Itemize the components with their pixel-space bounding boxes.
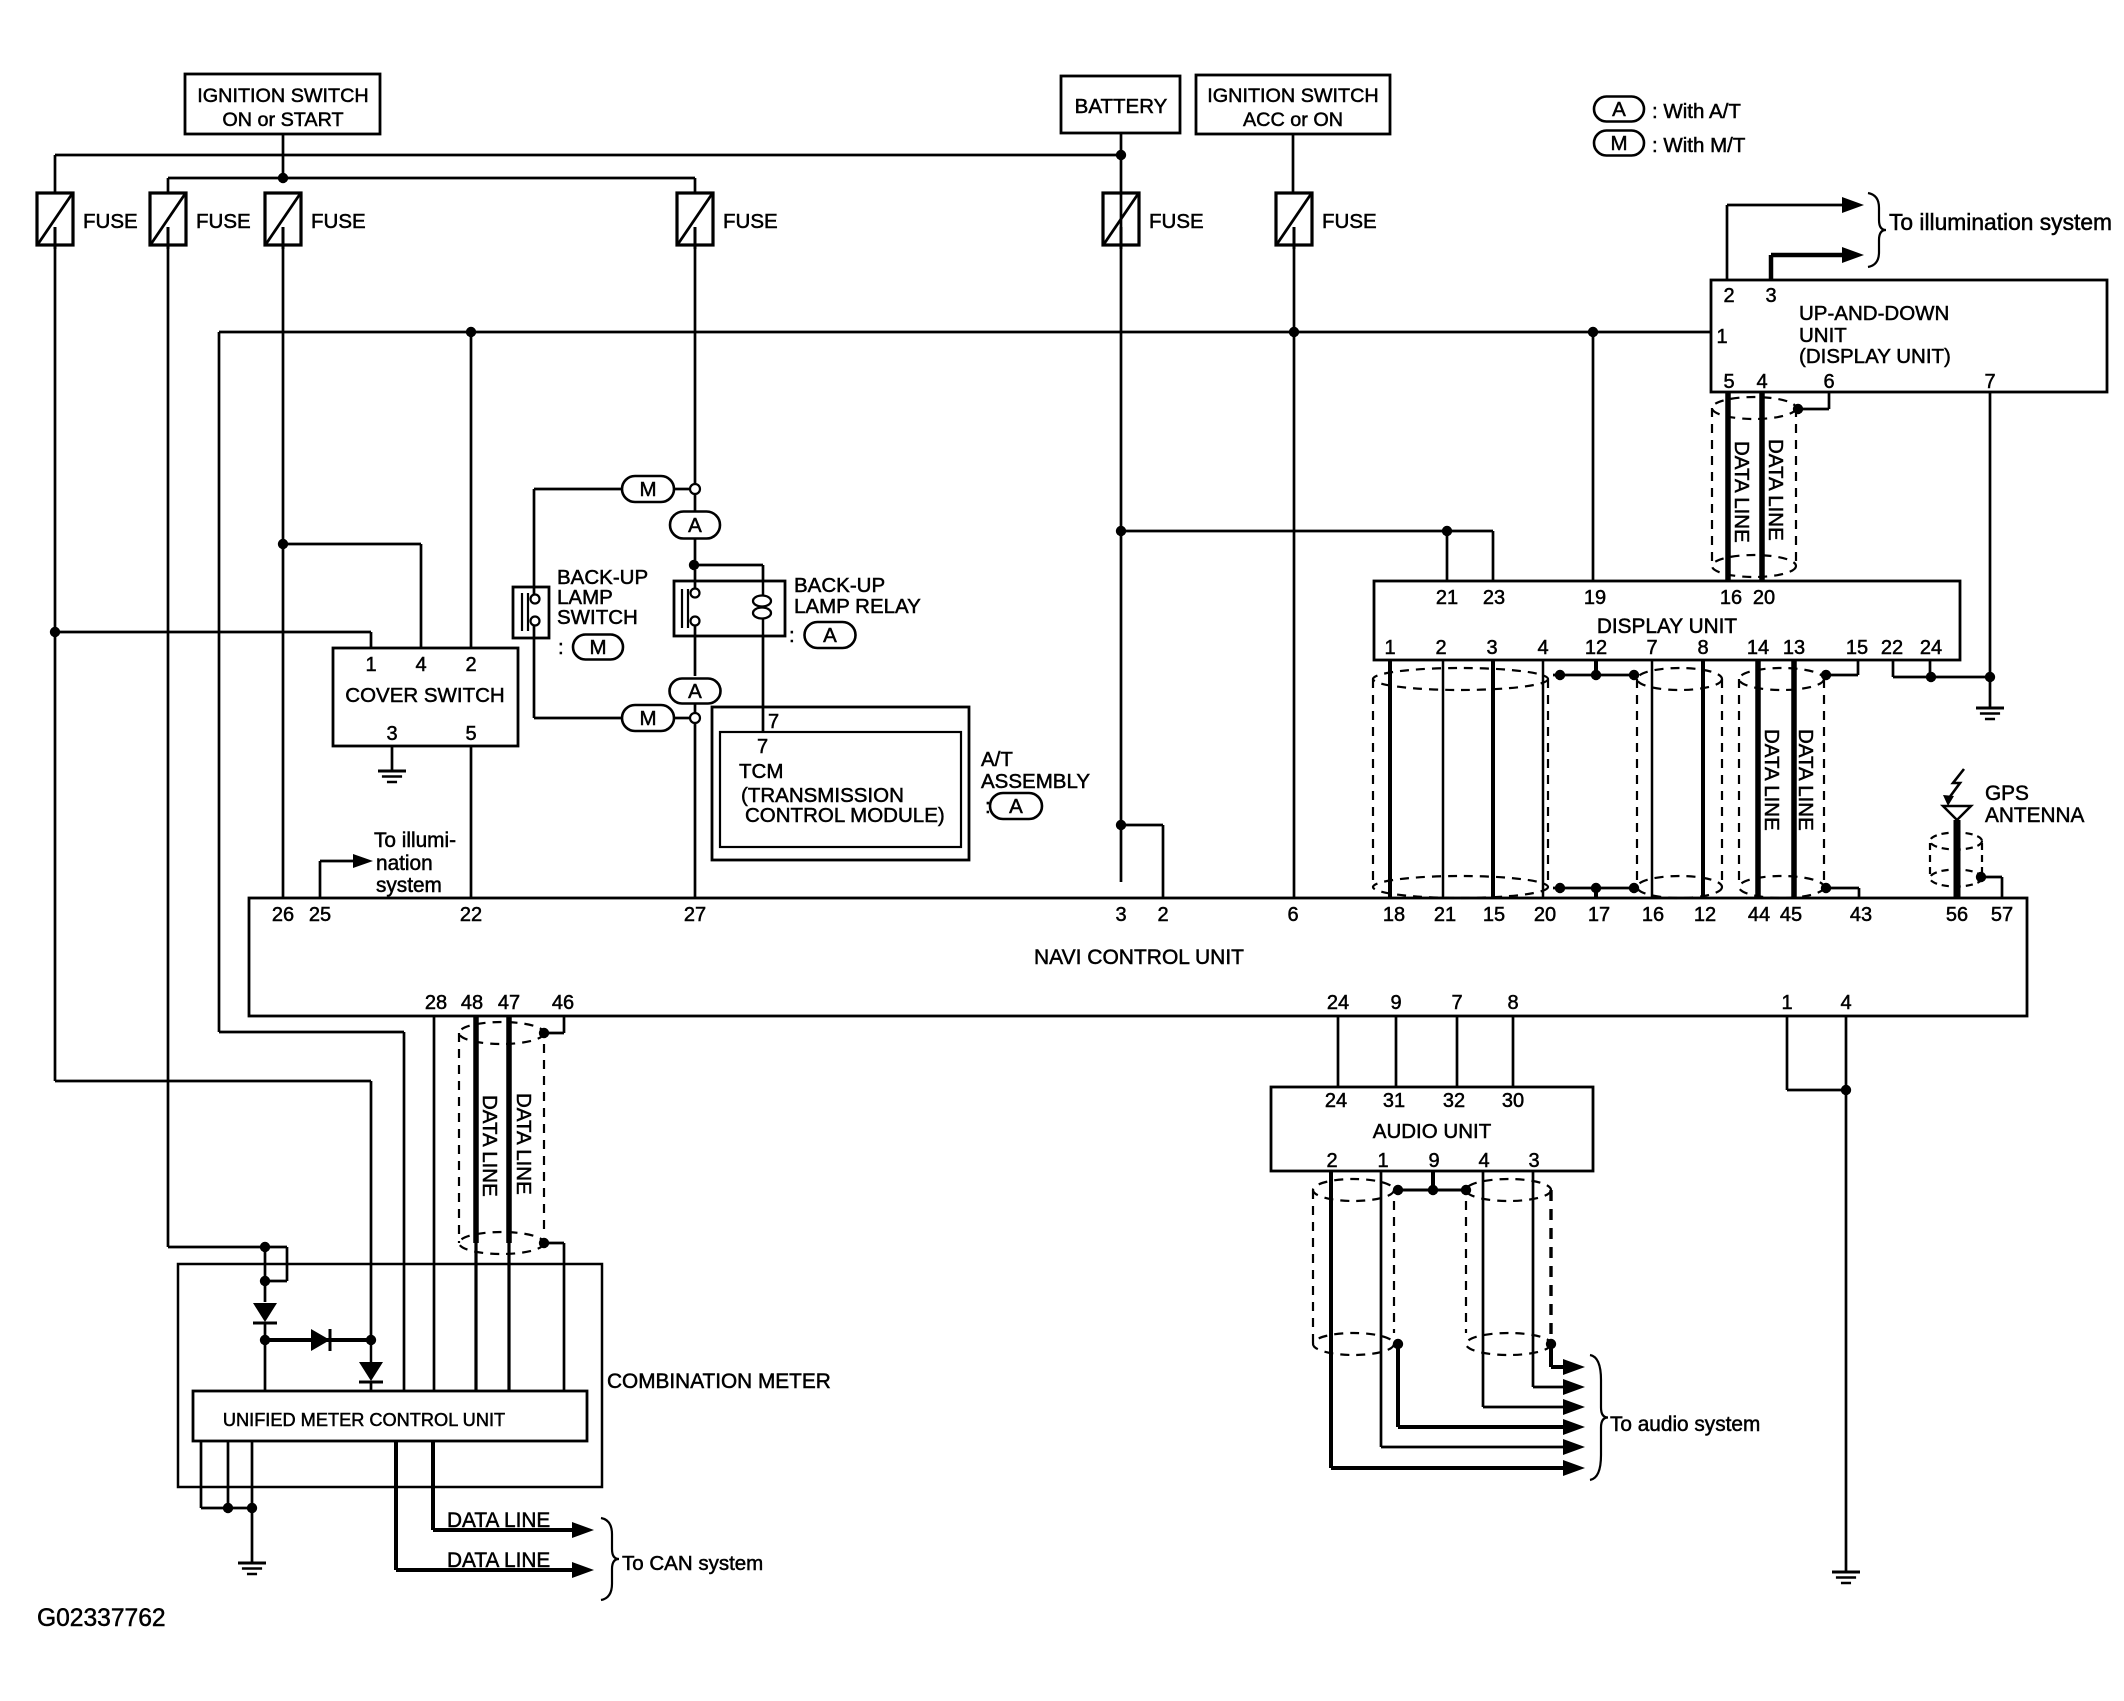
svg-text:BATTERY: BATTERY: [1075, 95, 1168, 118]
svg-text:FUSE: FUSE: [196, 210, 251, 233]
svg-text:13: 13: [1783, 637, 1805, 659]
svg-text:48: 48: [461, 992, 483, 1014]
svg-text:3: 3: [1115, 904, 1126, 926]
svg-text:DATA LINE: DATA LINE: [447, 1509, 550, 1532]
svg-text:24: 24: [1325, 1090, 1347, 1112]
svg-text:A: A: [1009, 795, 1023, 818]
svg-text:15: 15: [1846, 637, 1868, 659]
svg-text:27: 27: [684, 904, 706, 926]
svg-text:45: 45: [1780, 904, 1802, 926]
svg-text:3: 3: [386, 723, 397, 745]
svg-text:IGNITION SWITCH: IGNITION SWITCH: [1207, 85, 1378, 107]
svg-text:21: 21: [1436, 587, 1458, 609]
svg-text:12: 12: [1694, 904, 1716, 926]
svg-text:UNIFIED METER CONTROL UNIT: UNIFIED METER CONTROL UNIT: [223, 1410, 505, 1430]
svg-text:46: 46: [552, 992, 574, 1014]
svg-text:ON or START: ON or START: [222, 109, 343, 131]
svg-text:57: 57: [1991, 904, 2013, 926]
svg-text:1: 1: [365, 654, 376, 676]
svg-text:16: 16: [1720, 587, 1742, 609]
svg-text:To illumi-: To illumi-: [374, 829, 456, 852]
svg-text:COVER SWITCH: COVER SWITCH: [345, 684, 504, 707]
svg-text:7: 7: [757, 736, 768, 758]
svg-text:22: 22: [1881, 637, 1903, 659]
svg-text:1: 1: [1781, 992, 1792, 1014]
svg-text:3: 3: [1486, 637, 1497, 659]
svg-text:2: 2: [465, 654, 476, 676]
svg-text:28: 28: [425, 992, 447, 1014]
svg-text:ACC or ON: ACC or ON: [1243, 109, 1343, 131]
svg-text:To CAN system: To CAN system: [622, 1552, 763, 1575]
svg-text:A/T: A/T: [981, 748, 1013, 771]
svg-text:TCM: TCM: [739, 760, 783, 783]
svg-text:UNIT: UNIT: [1799, 324, 1847, 347]
svg-text:7: 7: [1451, 992, 1462, 1014]
svg-text:4: 4: [1756, 371, 1767, 393]
svg-text:6: 6: [1823, 371, 1834, 393]
svg-text:(DISPLAY UNIT): (DISPLAY UNIT): [1799, 345, 1951, 368]
svg-text:44: 44: [1748, 904, 1770, 926]
svg-text:30: 30: [1502, 1090, 1524, 1112]
svg-text:12: 12: [1585, 637, 1607, 659]
svg-text:47: 47: [498, 992, 520, 1014]
svg-text:DATA LINE: DATA LINE: [1760, 729, 1783, 831]
svg-text:7: 7: [1984, 371, 1995, 393]
svg-text:DATA LINE: DATA LINE: [512, 1093, 535, 1195]
svg-text:ANTENNA: ANTENNA: [1985, 804, 2085, 827]
svg-text:BACK-UP: BACK-UP: [794, 574, 885, 597]
svg-text:7: 7: [1646, 637, 1657, 659]
svg-text:1: 1: [1716, 326, 1727, 348]
svg-text:2: 2: [1326, 1150, 1337, 1172]
svg-text:20: 20: [1534, 904, 1556, 926]
svg-text:21: 21: [1434, 904, 1456, 926]
svg-text:A: A: [688, 514, 702, 537]
svg-text:9: 9: [1390, 992, 1401, 1014]
svg-text:system: system: [376, 874, 442, 897]
svg-text:To illumination system: To illumination system: [1889, 209, 2112, 235]
svg-text:24: 24: [1920, 637, 1942, 659]
svg-text:16: 16: [1642, 904, 1664, 926]
svg-text:nation: nation: [376, 852, 433, 875]
svg-text:DATA LINE: DATA LINE: [1764, 439, 1787, 541]
svg-text:56: 56: [1946, 904, 1968, 926]
svg-text:1: 1: [1377, 1150, 1388, 1172]
svg-text:23: 23: [1483, 587, 1505, 609]
svg-text:M: M: [639, 478, 656, 501]
svg-text:A: A: [823, 624, 837, 647]
svg-text:GPS: GPS: [1985, 782, 2029, 805]
svg-text:FUSE: FUSE: [1322, 210, 1377, 233]
svg-text:IGNITION SWITCH: IGNITION SWITCH: [197, 85, 368, 107]
svg-text:4: 4: [1537, 637, 1548, 659]
svg-text:FUSE: FUSE: [1149, 210, 1204, 233]
svg-text:6: 6: [1287, 904, 1298, 926]
svg-text:3: 3: [1765, 285, 1776, 307]
svg-text:1: 1: [1384, 637, 1395, 659]
svg-text:15: 15: [1483, 904, 1505, 926]
svg-text:AUDIO UNIT: AUDIO UNIT: [1373, 1120, 1492, 1143]
svg-text:2: 2: [1157, 904, 1168, 926]
svg-text:24: 24: [1327, 992, 1349, 1014]
svg-text::: :: [558, 636, 564, 659]
svg-text:2: 2: [1723, 285, 1734, 307]
svg-text:5: 5: [465, 723, 476, 745]
svg-text:A: A: [688, 680, 702, 703]
svg-text:DATA LINE: DATA LINE: [447, 1549, 550, 1572]
svg-text:To audio system: To audio system: [1610, 1413, 1760, 1436]
svg-text:DISPLAY UNIT: DISPLAY UNIT: [1597, 615, 1738, 638]
svg-text:20: 20: [1753, 587, 1775, 609]
svg-text:4: 4: [1840, 992, 1851, 1014]
svg-text:32: 32: [1443, 1090, 1465, 1112]
svg-text:18: 18: [1383, 904, 1405, 926]
svg-text:SWITCH: SWITCH: [557, 606, 638, 629]
svg-text:CONTROL MODULE): CONTROL MODULE): [745, 804, 945, 827]
svg-text:DATA LINE: DATA LINE: [1794, 729, 1817, 831]
svg-text:M: M: [1610, 132, 1627, 155]
svg-text:M: M: [639, 707, 656, 730]
svg-text:9: 9: [1428, 1150, 1439, 1172]
svg-text:A: A: [1612, 98, 1626, 121]
svg-text:: With M/T: : With M/T: [1652, 134, 1746, 157]
svg-text:4: 4: [415, 654, 426, 676]
svg-text:26: 26: [272, 904, 294, 926]
svg-text:M: M: [589, 636, 606, 659]
svg-text:7: 7: [768, 711, 779, 733]
svg-text:G02337762: G02337762: [37, 1605, 166, 1632]
svg-text:3: 3: [1528, 1150, 1539, 1172]
svg-text:19: 19: [1584, 587, 1606, 609]
svg-text:25: 25: [309, 904, 331, 926]
svg-text:4: 4: [1478, 1150, 1489, 1172]
svg-text:FUSE: FUSE: [723, 210, 778, 233]
svg-text:5: 5: [1723, 371, 1734, 393]
svg-text:: With A/T: : With A/T: [1652, 100, 1741, 123]
svg-text:8: 8: [1697, 637, 1708, 659]
svg-text:DATA LINE: DATA LINE: [1730, 441, 1753, 543]
svg-text:ASSEMBLY: ASSEMBLY: [981, 770, 1090, 793]
svg-text:UP-AND-DOWN: UP-AND-DOWN: [1799, 302, 1949, 325]
svg-text:FUSE: FUSE: [311, 210, 366, 233]
svg-text:22: 22: [460, 904, 482, 926]
svg-text:FUSE: FUSE: [83, 210, 138, 233]
svg-text:NAVI CONTROL UNIT: NAVI CONTROL UNIT: [1034, 946, 1244, 969]
svg-text:31: 31: [1383, 1090, 1405, 1112]
svg-text:14: 14: [1747, 637, 1769, 659]
svg-text:43: 43: [1850, 904, 1872, 926]
svg-text:8: 8: [1507, 992, 1518, 1014]
svg-text:2: 2: [1435, 637, 1446, 659]
svg-text:17: 17: [1588, 904, 1610, 926]
svg-text:LAMP RELAY: LAMP RELAY: [794, 595, 921, 618]
svg-text::: :: [789, 624, 795, 647]
svg-text:DATA LINE: DATA LINE: [478, 1095, 501, 1197]
svg-text:COMBINATION METER: COMBINATION METER: [607, 1370, 831, 1393]
